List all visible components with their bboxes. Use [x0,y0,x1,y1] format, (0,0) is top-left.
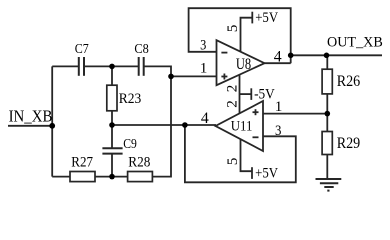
wire U8/U11 pin 2 to -5V [239,74,241,113]
node dot C9 bottom [109,174,115,180]
resistor R28 [128,172,153,182]
svg-text:5: 5 [224,158,241,166]
wire IN_XB input [8,125,52,127]
svg-text:R28: R28 [128,155,150,171]
wire R27 to C9 node [95,176,128,178]
wire U8 feedback loop [189,8,291,63]
wire U11 pin 1 to R26/R29 node [263,113,327,115]
wire bottom left to R27 [52,176,70,178]
node dot OUT/R26 [324,53,330,59]
node dot R23/C9 [109,122,115,128]
svg-text:3: 3 [275,122,281,139]
U8 plus sign [221,76,227,78]
svg-text:IN_XB: IN_XB [9,106,53,125]
wire C7 to node A [85,65,112,67]
svg-text:5: 5 [224,25,241,33]
resistor R26 [326,55,328,69]
op-amp U8 [217,40,265,85]
svg-text:R29: R29 [337,135,361,152]
U11 minus sign [253,136,259,138]
wire C8 to pin1 corner [144,66,171,76]
svg-text:U8: U8 [236,56,251,73]
svg-text:4: 4 [201,110,209,127]
wire output node to OUT_XB [291,54,382,56]
node dot IN [49,123,55,129]
svg-text:-5V: -5V [254,87,275,103]
svg-text:1: 1 [275,98,283,115]
resistor R23 [111,66,113,85]
node dot C7/C8/R23 [109,64,115,70]
svg-text:C9: C9 [123,137,137,152]
svg-text:2: 2 [224,100,241,108]
node dot feedback U11 [182,122,188,128]
wire node 4 horizontal [112,124,216,126]
svg-text:2: 2 [223,85,240,93]
wire U11 pin 5 to +5V [241,139,253,171]
resistor R29 [326,114,328,132]
wire pin 1 into U8 [171,75,217,77]
U8 minus sign [221,52,227,54]
op-amp U11 [216,101,264,151]
node dot R26/R29 [325,111,331,117]
svg-text:4: 4 [274,49,282,66]
svg-text:1: 1 [200,60,208,77]
svg-text:+5V: +5V [255,166,278,182]
capacitor C9 [111,125,113,148]
svg-text:OUT_XB: OUT_XB [327,35,383,51]
node dot pin1 [168,74,174,80]
ground [316,179,342,191]
capacitor C7 [79,57,84,76]
svg-text:R26: R26 [337,73,361,90]
node dot U8 out [288,53,294,59]
wire node A to C8 [112,65,138,67]
wire top to C7 [52,65,78,67]
svg-text:C8: C8 [134,41,149,56]
svg-text:+5V: +5V [255,10,278,26]
wire left vertical [51,66,53,176]
svg-text:R23: R23 [119,91,142,107]
capacitor C8 [139,57,144,76]
U11 plus sign [253,111,259,113]
svg-text:R27: R27 [71,155,93,171]
wire U8 output [265,62,291,64]
svg-text:C7: C7 [75,41,89,56]
resistor R27 [70,172,95,182]
wire U8 pin 5 to +5V [241,18,253,52]
wire U11 pin 3 feedback loop [185,125,296,182]
svg-text:3: 3 [200,36,206,53]
wire C8 node down to R28 [152,76,171,176]
svg-text:U11: U11 [231,119,253,135]
